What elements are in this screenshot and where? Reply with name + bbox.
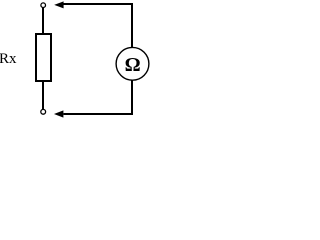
node: bottom terminal (open circle)	[41, 109, 46, 114]
arrowhead on bottom wire pointing left at bottom terminal	[54, 110, 63, 117]
circuit: resistance measurement with ohmmeter	[0, 0, 150, 119]
svg-text:Rx: Rx	[0, 51, 17, 67]
node: top terminal (open circle)	[41, 3, 46, 8]
wire: top terminal to resistor	[42, 7, 44, 34]
svg-text:Ω: Ω	[125, 54, 141, 76]
wire: top connector horizontal run	[64, 4, 133, 114]
arrowhead on top wire pointing left at top terminal	[54, 1, 63, 8]
wire: resistor to bottom terminal	[42, 81, 44, 110]
resistor Rx (rectangle body)	[36, 34, 51, 81]
ohmmeter M1 (circle body)	[116, 47, 149, 80]
